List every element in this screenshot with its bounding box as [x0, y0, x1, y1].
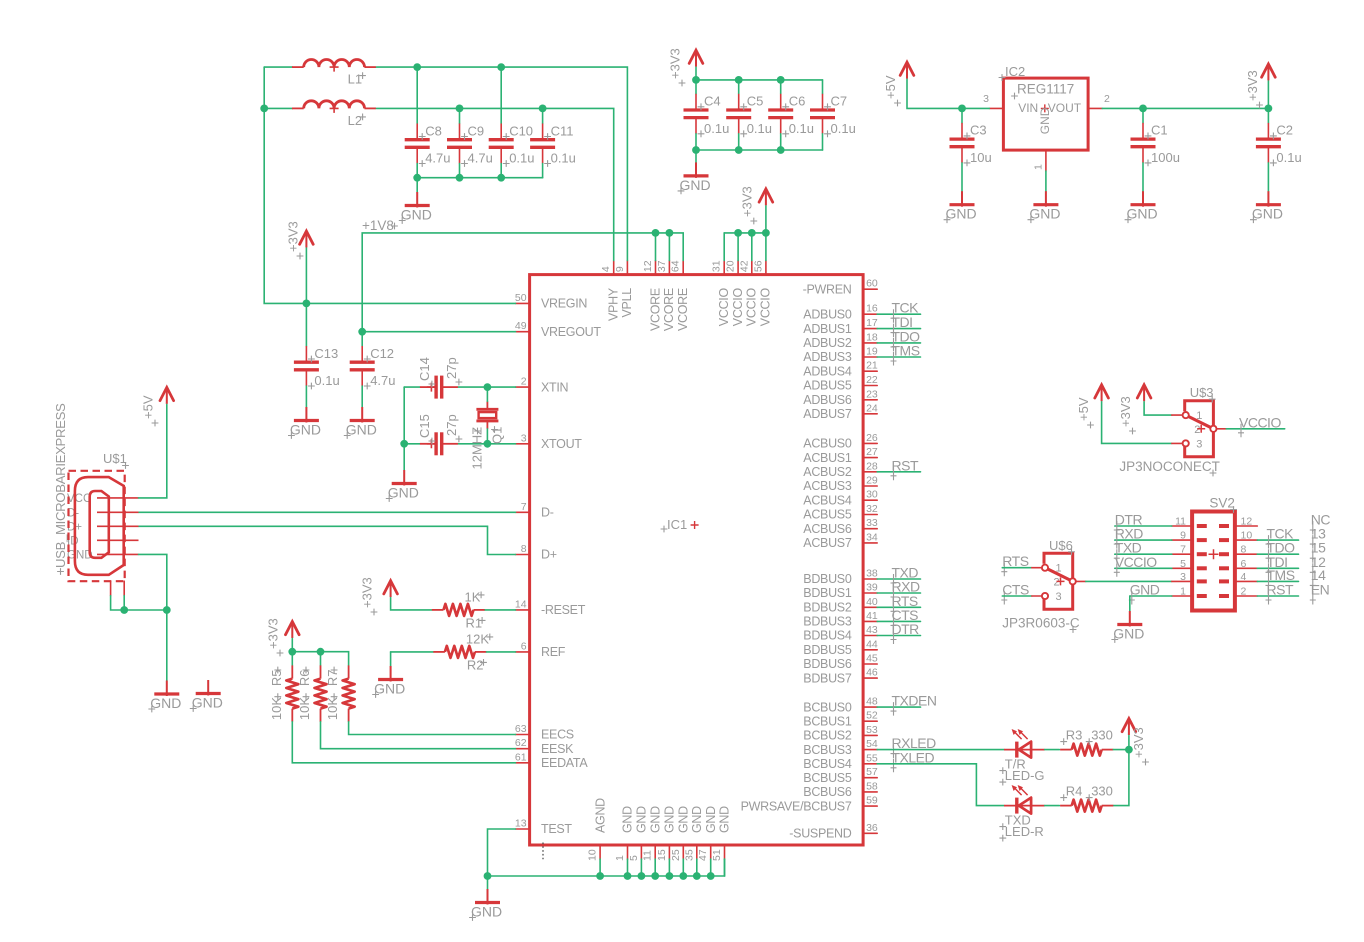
wire TMS [1257, 580, 1298, 582]
svg-text:VREGOUT: VREGOUT [541, 325, 601, 339]
svg-text:63: 63 [515, 723, 527, 735]
wire DTR [1115, 525, 1172, 527]
power +3V3 [266, 618, 300, 656]
wire +5V to pin3 [1102, 402, 1172, 444]
svg-text:44: 44 [866, 638, 878, 650]
pin 20 VCCIO [725, 260, 745, 326]
power +3V3 [1245, 64, 1275, 108]
pin 1 SV2 left [1172, 595, 1192, 597]
pin 8 SV2 right [1235, 553, 1257, 555]
svg-text:23: 23 [866, 388, 878, 400]
svg-text:1: 1 [1033, 164, 1045, 170]
pin 10 AGND [587, 798, 608, 861]
wire net RTS [877, 606, 920, 608]
ground [386, 470, 419, 502]
svg-text:L2: L2 [348, 113, 362, 128]
svg-text:0.1u: 0.1u [509, 151, 534, 166]
svg-text:+3V3: +3V3 [1131, 727, 1146, 758]
ground [399, 192, 432, 224]
wire R6 top [320, 652, 322, 666]
wire C4 bank bottom rail [696, 149, 823, 151]
svg-text:0.1u: 0.1u [551, 151, 576, 166]
svg-text:25: 25 [670, 849, 682, 861]
pin 3 stub [1172, 442, 1182, 444]
capacitor C8 [405, 123, 451, 167]
wire C1 gnd [1142, 163, 1144, 191]
svg-text:43: 43 [866, 624, 878, 636]
wire cap gnd side [822, 134, 824, 150]
svg-text:19: 19 [866, 346, 878, 358]
pin 2 XTIN [516, 376, 569, 395]
pin 18 ADBUS2 [803, 331, 878, 350]
wire to ground [1129, 596, 1131, 611]
wire net TCK [877, 313, 920, 315]
pin 1 GND [1045, 150, 1047, 171]
pin 32 ACBUS5 [803, 503, 878, 522]
wire RTS [1002, 567, 1032, 569]
svg-text:49: 49 [515, 320, 527, 332]
svg-text:RTS: RTS [1002, 553, 1028, 569]
wire cap gnd side [780, 134, 782, 150]
svg-text:C9: C9 [468, 123, 485, 138]
pin 13 TEST [515, 818, 572, 837]
jumper U$3 [1183, 385, 1217, 457]
junction [358, 328, 366, 336]
svg-text:26: 26 [866, 432, 878, 444]
pin 30 ACBUS4 [803, 489, 878, 508]
svg-text:C15: C15 [417, 414, 432, 438]
wire net DTR [877, 635, 920, 637]
wire R3 to 3V3 [1113, 749, 1129, 751]
svg-text:53: 53 [866, 724, 878, 736]
svg-text:40: 40 [866, 596, 878, 608]
svg-text:3: 3 [1056, 591, 1062, 603]
svg-text:ACBUS4: ACBUS4 [803, 493, 852, 507]
junction [748, 229, 756, 237]
resistor R4 [1060, 784, 1113, 812]
svg-text:GND: GND [621, 806, 635, 833]
svg-text:0.1u: 0.1u [831, 121, 856, 136]
svg-text:8: 8 [1241, 544, 1247, 556]
svg-text:10: 10 [587, 849, 599, 861]
svg-text:45: 45 [866, 653, 878, 665]
LED1 T/R LED-G [999, 729, 1044, 786]
svg-text:60: 60 [866, 278, 878, 290]
svg-text:USB_MICROBARIEXPRESS: USB_MICROBARIEXPRESS [53, 403, 68, 568]
pin 15 GND [656, 806, 677, 861]
svg-text:330: 330 [1091, 784, 1113, 799]
pin 9 VPLL [614, 261, 634, 318]
svg-text:+5V: +5V [1076, 397, 1091, 421]
wire +1V8 rail [362, 233, 683, 332]
svg-text:REF: REF [541, 645, 566, 659]
svg-text:RST: RST [1267, 582, 1294, 598]
wire gnd pin 15 [668, 859, 670, 876]
svg-text:D+: D+ [541, 548, 557, 562]
svg-text:61: 61 [515, 751, 527, 763]
wire R2 to REF [487, 651, 516, 653]
wire TXD [1115, 553, 1172, 555]
wire gnd pin 5 [640, 859, 642, 876]
svg-text:58: 58 [866, 780, 878, 792]
capacitor C9 [447, 123, 493, 167]
svg-text:+3V3: +3V3 [266, 618, 281, 649]
svg-text:28: 28 [866, 460, 878, 472]
svg-text:ADBUS6: ADBUS6 [803, 393, 852, 407]
junction [260, 105, 268, 113]
junction [317, 648, 325, 656]
svg-text:JP3NOCONECT: JP3NOCONECT [1119, 459, 1220, 474]
pin 60 -PWREN [803, 278, 878, 297]
svg-text:VIN: VIN [1018, 101, 1038, 115]
power +3V3 [1118, 385, 1151, 435]
junction [456, 174, 464, 182]
pin 9 SV2 left [1172, 539, 1192, 541]
capacitor C7 [810, 94, 856, 138]
svg-text:BDBUS5: BDBUS5 [803, 643, 852, 657]
junction [288, 648, 296, 656]
wire R5 to EEDATA [292, 722, 515, 763]
svg-text:XTIN: XTIN [541, 380, 569, 394]
svg-text:11: 11 [1175, 516, 1186, 528]
svg-text:C5: C5 [747, 94, 764, 109]
wire to ground [403, 444, 405, 470]
svg-text:+3V3: +3V3 [739, 186, 754, 217]
svg-text:GND: GND [635, 806, 649, 833]
wire L1 to VPLL [377, 67, 628, 260]
junction [734, 229, 742, 237]
svg-text:7: 7 [1180, 544, 1186, 556]
shield pins [110, 581, 112, 596]
junction [777, 146, 785, 154]
wire to ground [695, 150, 697, 162]
svg-text:27p: 27p [444, 357, 459, 379]
svg-text:17: 17 [866, 317, 878, 329]
svg-text:32: 32 [866, 503, 878, 515]
svg-text:TMS: TMS [892, 343, 920, 359]
wire R6 to EESK [321, 722, 516, 749]
pin 33 ACBUS6 [803, 517, 878, 536]
svg-text:BCBUS2: BCBUS2 [803, 729, 852, 743]
svg-text:16: 16 [866, 303, 878, 315]
svg-text:4.7u: 4.7u [468, 151, 493, 166]
svg-text:GND: GND [648, 806, 662, 833]
junction [456, 105, 464, 113]
junction [413, 63, 421, 71]
svg-text:22: 22 [866, 374, 878, 386]
pin 25 GND [670, 806, 691, 861]
pin 62 EESK [515, 737, 574, 756]
pin 45 BDBUS6 [803, 653, 878, 672]
svg-text:RST: RST [892, 457, 919, 473]
svg-text:BDBUS6: BDBUS6 [803, 657, 852, 671]
pin 48 BCBUS0 [803, 696, 878, 715]
wire gnd bus [488, 859, 725, 876]
svg-text:R3: R3 [1066, 728, 1083, 743]
junction [596, 872, 604, 880]
svg-text:6: 6 [1241, 558, 1247, 570]
junction [692, 76, 700, 84]
svg-text:XTOUT: XTOUT [541, 437, 582, 451]
svg-text:ACBUS5: ACBUS5 [803, 508, 852, 522]
wire cap gnd side [695, 134, 697, 150]
wire net RST [877, 471, 920, 473]
pin 24 ADBUS7 [803, 402, 878, 421]
wire C13 gnd [305, 386, 307, 407]
svg-text:2: 2 [1194, 424, 1200, 436]
wire RXLED [877, 749, 1004, 751]
svg-text:C12: C12 [370, 346, 394, 361]
wire C2 gnd [1267, 163, 1269, 191]
pin 6 SV2 right [1235, 567, 1257, 569]
svg-text:12K: 12K [466, 631, 489, 646]
wire VCCIO [1115, 567, 1172, 569]
capacitor C15 [417, 414, 462, 455]
wire to C5 [738, 80, 740, 94]
junction [651, 872, 659, 880]
svg-text:ADBUS7: ADBUS7 [803, 407, 852, 421]
pin 3 SV2 left [1172, 580, 1192, 582]
wire TCK [1257, 539, 1298, 541]
pin 17 ADBUS1 [803, 317, 878, 336]
svg-text:0.1u: 0.1u [704, 121, 729, 136]
resistor R1 [432, 589, 486, 630]
svg-text:2: 2 [1241, 586, 1247, 598]
pin 8 D+ [516, 543, 557, 562]
svg-text:21: 21 [866, 360, 878, 372]
wire 3V3 arrow down [291, 639, 293, 652]
pin 53 BCBUS2 [803, 724, 878, 743]
wire VCC to +5V [139, 404, 167, 498]
wire R1 to -RESET [485, 609, 515, 611]
svg-text:55: 55 [866, 752, 878, 764]
pin 2 VOUT [1088, 107, 1102, 109]
svg-text:+1V8: +1V8 [362, 218, 394, 233]
connector U$1 [53, 403, 139, 596]
wire shield 2 [123, 596, 125, 610]
wire 3V3 arrow [1267, 81, 1269, 108]
power +5V [883, 62, 914, 106]
junction [484, 440, 492, 448]
junction [413, 174, 421, 182]
svg-text:GND: GND [690, 806, 704, 833]
junction [666, 872, 674, 880]
svg-text:-RESET: -RESET [541, 603, 586, 617]
svg-text:+3V3: +3V3 [1245, 70, 1260, 101]
svg-text:VCCIO: VCCIO [731, 288, 745, 327]
svg-text:AGND: AGND [593, 798, 607, 833]
crystal Q1 [470, 401, 505, 469]
svg-text:46: 46 [866, 667, 878, 679]
pin 54 BCBUS3 [803, 738, 878, 757]
svg-text:37: 37 [656, 260, 668, 272]
wire +5V to VIN [907, 79, 989, 108]
svg-text:GND: GND [704, 806, 718, 833]
svg-text:ACBUS3: ACBUS3 [803, 479, 852, 493]
svg-text:ADBUS2: ADBUS2 [803, 336, 852, 350]
wire Q1 to XTOUT [486, 429, 488, 444]
svg-text:R7: R7 [325, 669, 340, 686]
svg-text:TMS: TMS [1267, 567, 1295, 583]
svg-text:34: 34 [866, 531, 878, 543]
svg-text:3: 3 [1196, 438, 1202, 450]
svg-text:59: 59 [866, 795, 878, 807]
wire gnd pin 47 [710, 859, 712, 876]
junction [1139, 105, 1147, 113]
junction [679, 872, 687, 880]
wire shield to gnd [124, 609, 167, 611]
wire to C12 [361, 332, 363, 346]
wire C15 to XTOUT node [458, 443, 487, 445]
svg-text:1K: 1K [465, 589, 481, 604]
pin 5 SV2 left [1172, 567, 1192, 569]
wire C14 to XTIN node [458, 386, 487, 388]
svg-text:4.7u: 4.7u [425, 151, 450, 166]
capacitor C12 [350, 346, 396, 390]
svg-text:VCCIO: VCCIO [1115, 554, 1157, 570]
wire net TXD [877, 578, 920, 580]
wire 3V3 to VCCIO rail [765, 206, 767, 233]
pin 26 ACBUS0 [803, 432, 878, 451]
wire to C8 [416, 67, 418, 123]
svg-text:10K: 10K [269, 697, 284, 720]
svg-text:EESK: EESK [541, 742, 574, 756]
junction [120, 606, 128, 614]
svg-text:GND: GND [1038, 107, 1052, 134]
svg-text:ADBUS5: ADBUS5 [803, 379, 852, 393]
wire to C13 [305, 303, 307, 346]
svg-text:20: 20 [725, 260, 737, 272]
svg-text:7: 7 [521, 501, 527, 513]
svg-text:+3V3: +3V3 [286, 221, 301, 252]
svg-text:9: 9 [614, 266, 626, 272]
power +3V3 [1122, 719, 1149, 766]
pin 2 stub [1076, 580, 1086, 582]
svg-text:0.1u: 0.1u [789, 121, 814, 136]
svg-text:+5V: +5V [141, 395, 156, 419]
pin 16 ADBUS0 [803, 303, 878, 322]
pin 36 -SUSPEND [789, 822, 878, 841]
pin 22 ADBUS5 [803, 374, 878, 393]
wire C3 gnd [961, 163, 963, 191]
svg-text:D-: D- [541, 506, 554, 520]
capacitor C10 [489, 123, 535, 167]
svg-text:-SUSPEND: -SUSPEND [789, 827, 851, 841]
pin 42 VCCIO [738, 260, 758, 326]
svg-text:EECS: EECS [541, 728, 574, 742]
wire gnd pin 25 [682, 859, 684, 876]
pin 1 GND [614, 806, 635, 861]
ground [1028, 191, 1061, 223]
svg-text:10u: 10u [970, 150, 992, 165]
wire TDI [1257, 567, 1298, 569]
svg-text:VPLL: VPLL [620, 288, 634, 318]
pin 57 BCBUS5 [803, 766, 878, 785]
power +5V [1076, 385, 1108, 429]
wire 3V3 arrow down [695, 67, 697, 80]
svg-text:BCBUS6: BCBUS6 [803, 785, 852, 799]
wire RXD [1115, 539, 1172, 541]
ground [1125, 191, 1158, 223]
svg-text:36: 36 [866, 822, 878, 834]
svg-text:BDBUS1: BDBUS1 [803, 586, 852, 600]
wire VCORE 12 [655, 233, 657, 261]
wire XTIN to Q1 [486, 387, 488, 401]
pin 43 BDBUS4 [803, 624, 878, 643]
svg-text:GND: GND [718, 806, 732, 833]
wire to C4 [695, 80, 697, 94]
pin 61 EEDATA [515, 751, 588, 770]
svg-text:REG1117: REG1117 [1017, 82, 1074, 97]
svg-text:6: 6 [521, 640, 527, 652]
wire to C3 [961, 108, 963, 123]
pin 63 EECS [515, 723, 574, 742]
junction [707, 872, 715, 880]
svg-text:18: 18 [866, 331, 878, 343]
svg-text:54: 54 [866, 738, 878, 750]
wire VCCIO pin [765, 233, 767, 261]
svg-text:ADBUS4: ADBUS4 [803, 364, 852, 378]
wire VCCIO pin [723, 233, 725, 261]
svg-text:C2: C2 [1276, 123, 1293, 138]
IC IC1 [530, 275, 864, 845]
svg-text:+3V3: +3V3 [668, 48, 683, 79]
wire to C10 [500, 67, 502, 123]
pin 10 SV2 right [1235, 539, 1257, 541]
wire C12 gnd [361, 386, 363, 407]
wire +3V3 to L1 [264, 66, 292, 68]
svg-text:BCBUS0: BCBUS0 [803, 700, 852, 714]
svg-text:-PWREN: -PWREN [803, 282, 852, 296]
pin 6 REF [516, 640, 566, 659]
pin 38 BDBUS0 [803, 568, 878, 587]
svg-text:GND: GND [1130, 582, 1160, 598]
pin 2 SV2 right [1235, 595, 1257, 597]
power +5V [141, 387, 174, 426]
svg-text:VCCIO: VCCIO [1239, 414, 1281, 430]
svg-text:LED-G: LED-G [1005, 768, 1045, 783]
wire cap gnd side [738, 134, 740, 150]
svg-text:64: 64 [670, 260, 682, 272]
ground [148, 681, 181, 713]
svg-text:VREGIN: VREGIN [541, 297, 587, 311]
wire to C11 [542, 108, 544, 123]
svg-text:3: 3 [1180, 571, 1186, 583]
svg-text:C10: C10 [509, 123, 533, 138]
wire to C1 [1142, 108, 1144, 123]
pin 49 VREGOUT [515, 320, 601, 339]
svg-text:33: 33 [866, 517, 878, 529]
wire net TMS [877, 356, 920, 358]
svg-text:1: 1 [614, 855, 626, 861]
test pin dotted marker [542, 843, 544, 862]
svg-text:C8: C8 [425, 123, 442, 138]
svg-text:5: 5 [628, 855, 640, 861]
svg-text:10: 10 [1241, 530, 1253, 542]
pin 5 GND [628, 806, 649, 861]
svg-text:ACBUS2: ACBUS2 [803, 465, 852, 479]
wire gnd pin 51 [724, 859, 726, 876]
pin 31 VCCIO [711, 260, 731, 326]
svg-text:BDBUS4: BDBUS4 [803, 629, 852, 643]
ground [678, 162, 711, 194]
resistor R6 [297, 665, 327, 721]
resistor R7 [325, 665, 355, 721]
svg-text:330: 330 [1091, 728, 1113, 743]
svg-text:+5V: +5V [883, 75, 898, 99]
wire to C2 [1267, 108, 1269, 123]
wire TXLED [877, 764, 1004, 806]
